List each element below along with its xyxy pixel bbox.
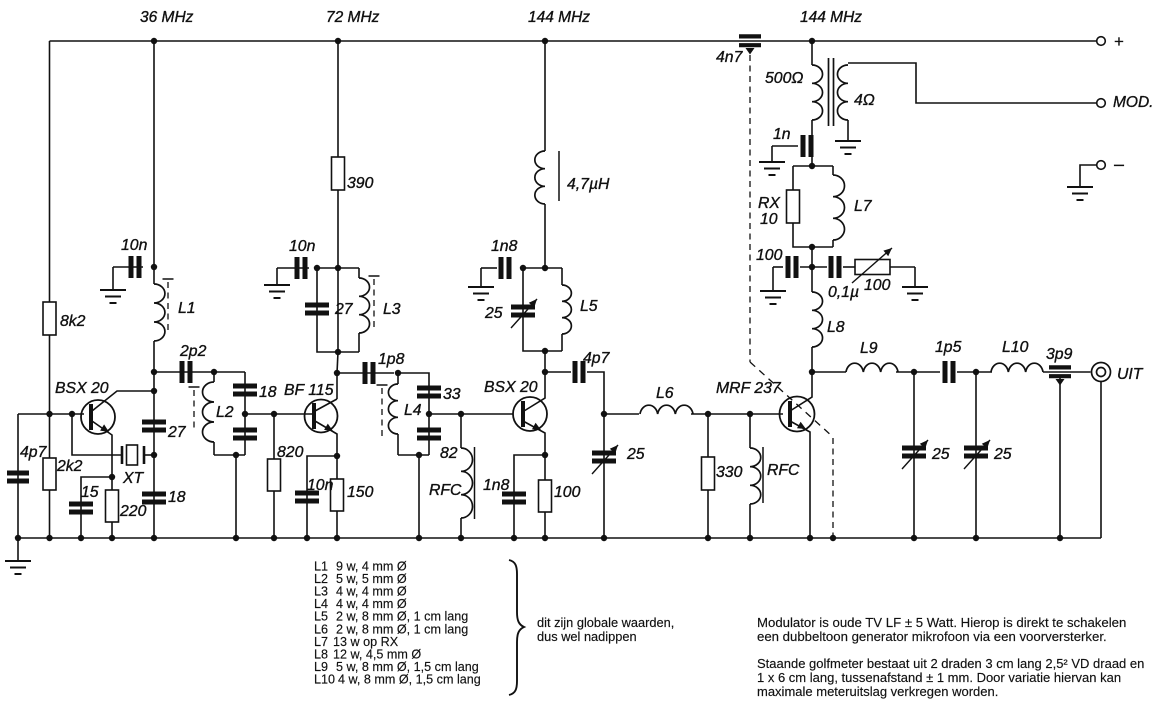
svg-text:1n: 1n — [773, 126, 791, 143]
svg-text:maximale meteruitslag verkrege: maximale meteruitslag verkregen worden. — [757, 684, 998, 699]
svg-text:0,1µ: 0,1µ — [828, 284, 859, 301]
svg-text:4Ω: 4Ω — [854, 92, 875, 109]
svg-text:8k2: 8k2 — [60, 313, 86, 330]
svg-text:RX: RX — [758, 195, 781, 212]
svg-text:1n8: 1n8 — [483, 477, 510, 494]
svg-text:100: 100 — [554, 484, 581, 501]
svg-text:220: 220 — [119, 503, 147, 520]
svg-text:18: 18 — [259, 384, 277, 401]
svg-text:10: 10 — [760, 211, 778, 228]
svg-text:500Ω: 500Ω — [765, 70, 803, 87]
svg-text:L2: L2 — [216, 404, 234, 421]
svg-text:L8: L8 — [827, 319, 845, 336]
svg-text:27: 27 — [334, 301, 354, 318]
svg-text:RFC: RFC — [429, 482, 462, 499]
svg-text:144 MHz: 144 MHz — [528, 9, 590, 26]
svg-text:MOD.: MOD. — [1113, 94, 1153, 111]
svg-text:L5: L5 — [580, 298, 598, 315]
svg-text:MRF 237: MRF 237 — [716, 380, 782, 397]
svg-text:4p7: 4p7 — [20, 444, 48, 461]
svg-text:1n8: 1n8 — [491, 238, 518, 255]
svg-text:82: 82 — [440, 445, 458, 462]
svg-text:100: 100 — [756, 247, 783, 264]
svg-text:L10: L10 — [314, 672, 335, 686]
svg-text:2p2: 2p2 — [179, 343, 207, 360]
svg-text:72 MHz: 72 MHz — [326, 9, 380, 26]
svg-text:4 w, 8 mm Ø, 1,5 cm lang: 4 w, 8 mm Ø, 1,5 cm lang — [338, 672, 481, 686]
svg-text:100: 100 — [864, 277, 891, 294]
svg-text:144 MHz: 144 MHz — [800, 9, 862, 26]
svg-text:L6: L6 — [656, 385, 674, 402]
svg-text:Staande golfmeter bestaat uit: Staande golfmeter bestaat uit 2 draden 3… — [757, 656, 1144, 671]
svg-text:390: 390 — [347, 175, 374, 192]
svg-text:BSX 20: BSX 20 — [55, 380, 109, 397]
svg-text:25: 25 — [993, 446, 1012, 463]
svg-text:36 MHz: 36 MHz — [140, 9, 194, 26]
svg-text:Modulator is oude TV LF ± 5 Wa: Modulator is oude TV LF ± 5 Watt. Hierop… — [757, 615, 1126, 630]
svg-text:L10: L10 — [1002, 339, 1029, 356]
svg-text:10n: 10n — [121, 237, 148, 254]
svg-text:RFC: RFC — [767, 462, 800, 479]
svg-text:L4: L4 — [404, 402, 422, 419]
svg-text:18: 18 — [168, 489, 186, 506]
svg-text:–: – — [1114, 154, 1124, 174]
svg-text:1 x 6 cm lang, tussenafstand ±: 1 x 6 cm lang, tussenafstand ± 1 mm. Doo… — [757, 670, 1121, 685]
svg-text:2k2: 2k2 — [56, 458, 83, 475]
svg-text:1p8: 1p8 — [378, 351, 405, 368]
svg-text:820: 820 — [277, 444, 304, 461]
svg-text:27: 27 — [167, 424, 187, 441]
svg-text:L9: L9 — [860, 340, 878, 357]
svg-text:25: 25 — [931, 446, 950, 463]
svg-text:25: 25 — [484, 305, 503, 322]
svg-text:330: 330 — [716, 464, 743, 481]
svg-text:25: 25 — [626, 446, 645, 463]
svg-text:een dubbeltoon generator mikro: een dubbeltoon generator mikrofoon via e… — [757, 629, 1107, 644]
svg-text:4,7µH: 4,7µH — [567, 176, 610, 193]
svg-text:L7: L7 — [854, 198, 873, 215]
svg-text:33: 33 — [443, 386, 461, 403]
svg-text:3p9: 3p9 — [1046, 346, 1073, 363]
svg-text:L1: L1 — [178, 300, 196, 317]
svg-text:L3: L3 — [383, 301, 401, 318]
svg-text:10n: 10n — [289, 238, 316, 255]
svg-text:15: 15 — [81, 484, 99, 501]
svg-text:dus wel nadippen: dus wel nadippen — [537, 629, 637, 644]
svg-text:dit zijn globale waarden,: dit zijn globale waarden, — [537, 615, 674, 630]
svg-text:4n7: 4n7 — [716, 49, 744, 66]
svg-text:UIT: UIT — [1117, 366, 1144, 383]
svg-text:BSX 20: BSX 20 — [484, 379, 538, 396]
svg-text:+: + — [1114, 32, 1124, 51]
svg-text:1p5: 1p5 — [935, 339, 962, 356]
svg-text:BF 115: BF 115 — [284, 382, 334, 399]
svg-text:10n: 10n — [307, 477, 334, 494]
svg-text:XT: XT — [122, 470, 145, 487]
svg-text:150: 150 — [347, 484, 374, 501]
svg-text:4p7: 4p7 — [583, 350, 611, 367]
